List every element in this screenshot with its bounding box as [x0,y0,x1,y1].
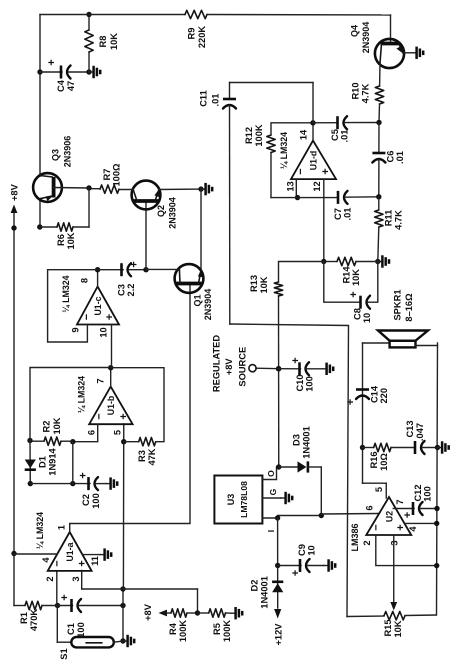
capacitor C7 [337,191,340,204]
svg-text:+8V: +8V [9,183,19,201]
svg-text:C9: C9 [297,544,307,556]
svg-text:10K: 10K [66,232,76,249]
transistor Q1 2N3904 [175,264,204,293]
svg-text:R12: R12 [244,127,254,144]
wire Q2 emitter down [159,188,201,190]
svg-text:Q1: Q1 [193,294,203,306]
wire pin O [262,467,278,480]
svg-text:12: 12 [312,181,322,191]
svg-text:+: + [46,59,58,65]
wire pin5 riser [363,482,387,484]
svg-text:1N4001: 1N4001 [260,576,270,609]
node pin4 tap [11,551,16,556]
wire U1-c feedback loop [48,270,98,342]
svg-text:+8V: +8V [224,358,234,376]
svg-text:+12V: +12V [274,623,284,646]
svg-text:10: 10 [362,313,372,323]
svg-text:+: + [290,357,302,363]
right rail + resistor R9 [40,14,185,16]
resistor R4 [171,609,187,617]
diode D1 [29,441,31,484]
ground R14 node [378,261,382,263]
node R14 bottom bus [375,259,380,264]
ground Q2/Q1 emitters [201,188,205,190]
svg-text:¼ LM324: ¼ LM324 [279,132,289,169]
transistor Q4 2N3904 [390,15,392,42]
node R1/C1/pin2 junction [55,603,60,608]
svg-text:470K: 470K [29,609,39,632]
wire pin11 + ground [82,554,100,556]
wire pin6 V+ riser [321,513,379,516]
svg-text:5: 5 [113,430,123,435]
wire pin4 to ground bus [405,522,437,524]
wire pin G + ground [262,497,281,499]
capacitor C3 [98,269,124,271]
wire U1-c output [97,270,99,287]
resistor R1 [14,605,25,607]
resistor R8 [88,52,90,72]
ground R5 bottom [231,612,235,614]
svg-text:10: 10 [307,545,317,555]
svg-text:R10: R10 [351,82,361,99]
capacitor C14 [356,388,369,391]
transistor Q2 2N3904 [132,181,161,210]
svg-text:SPKR1: SPKR1 [393,289,403,320]
svg-text:U1-d: U1-d [309,151,319,171]
svg-text:U2: U2 [385,511,395,522]
svg-text:R1: R1 [19,612,29,624]
wire pin4 V+ [14,553,57,555]
ground C4 node [89,71,93,73]
svg-text:−: − [371,524,383,530]
svg-text:100K: 100K [178,620,188,643]
wire U1-b output [110,368,112,387]
svg-text:.01: .01 [340,130,350,143]
wire regulated +8V rail y=278.75 [278,296,280,467]
svg-text:R13: R13 [249,275,259,292]
svg-text:Q3: Q3 [51,149,61,161]
svg-text:Q4: Q4 [350,25,360,37]
svg-text:R4: R4 [168,622,178,635]
svg-text:D2: D2 [250,580,260,592]
svg-text:6: 6 [365,505,375,510]
resistor R5 [198,612,209,614]
resistor R12 [270,153,272,198]
svg-text:C1: C1 [66,623,76,635]
wire U1-b feedback box [30,368,111,441]
svg-text:R8: R8 [98,36,108,48]
svg-text:4.7K: 4.7K [394,210,404,230]
wire Q1 collector to Q2 base [146,268,179,270]
wire Q3 base down [54,187,89,190]
wire ground bus y=123 [122,589,124,641]
svg-text:10K: 10K [393,620,403,637]
svg-text:+: + [104,314,116,320]
capacitor C6 [378,123,380,153]
resistor R3 [124,441,139,443]
wire C11 to R15 long link [230,324,349,617]
svg-text:C12: C12 [413,484,423,501]
resistor R16 [363,447,374,449]
capacitor C2 + ground [30,483,90,485]
capacitor C8 loop [324,262,361,303]
op-amp U1-d [291,141,336,180]
wire pin10 to U1-b output [111,325,113,368]
svg-text:2N3906: 2N3906 [63,136,73,168]
svg-text:+: + [59,594,71,600]
svg-text:R3: R3 [137,450,147,462]
svg-text:100: 100 [423,486,433,502]
svg-text:10K: 10K [351,269,361,286]
svg-text:1N914: 1N914 [48,447,58,475]
node pin3/divider [120,586,125,591]
svg-text:100Ω: 100Ω [112,163,122,187]
svg-text:7: 7 [96,378,106,383]
svg-text:2: 2 [45,576,55,581]
capacitor C9 + ground [278,565,301,567]
svg-text:+: + [402,512,414,518]
wire pin2 to U1-a [56,571,58,606]
ground speaker bus [438,447,442,449]
svg-text:3: 3 [71,576,81,581]
switch S1 (mercury) [56,606,58,643]
wire divider to pin3 riser [197,589,199,613]
wire U1-b pin5 branch [122,424,124,589]
wire D3 to +12V node [320,467,322,516]
svg-text:.01: .01 [211,94,221,107]
transistor Q3 2N3906 [33,173,62,202]
svg-text:+: + [129,261,141,267]
svg-text:10K: 10K [109,33,119,50]
svg-text:C4: C4 [56,79,66,92]
wire R12-C7 riser [271,197,338,199]
svg-text:U3: U3 [226,494,236,506]
svg-text:−: − [81,314,93,320]
svg-text:47K: 47K [147,448,157,465]
svg-text:+: + [77,560,89,566]
wire R15 wiper arrow from pin3 [393,535,395,602]
svg-text:C5: C5 [330,129,340,141]
svg-text:2N3904: 2N3904 [203,289,213,321]
wire emitter bus y=201 [200,189,202,270]
svg-text:C10: C10 [295,374,305,391]
wire pin2 to ground bus [376,535,437,566]
svg-text:14: 14 [299,129,309,140]
svg-text:4.7K: 4.7K [361,83,371,103]
svg-text:¼ LM324: ¼ LM324 [61,275,71,312]
ground S1 node [123,640,127,642]
capacitor C11 [229,83,231,99]
potentiometer R15 [347,615,384,618]
svg-text:4: 4 [408,526,418,532]
svg-text:C6: C6 [386,151,396,163]
svg-text:100K: 100K [254,124,264,147]
resistor R10 [379,63,381,86]
wire U1-a output [70,284,190,533]
node D3 anode [276,464,281,469]
svg-text:+: + [320,168,332,174]
svg-text:13: 13 [286,181,296,191]
resistor R7 [119,189,133,191]
svg-text:R14: R14 [342,266,352,284]
diode D3 [279,466,298,468]
svg-text:C7: C7 [333,208,343,220]
svg-text:100: 100 [91,493,101,509]
capacitor C5 [313,122,338,124]
op-amp U1-c [77,287,119,325]
svg-text:SOURCE: SOURCE [238,347,248,387]
wire y=313 to C11 riser [312,83,314,123]
+8V arrow right end [13,212,15,228]
node Q3 emitter branch [11,225,16,230]
op-amp U2 LM386 [366,497,411,535]
svg-text:D1: D1 [38,456,48,468]
svg-text:−: − [295,168,307,174]
svg-text:LM78L08: LM78L08 [239,481,249,518]
capacitor C1 [58,605,73,607]
diode D2 [272,583,283,592]
svg-text:100: 100 [76,622,86,638]
wire pin3 riser [82,588,198,590]
svg-text:5: 5 [374,487,384,492]
resistor R13 [274,282,282,296]
svg-text:1N4001: 1N4001 [302,426,312,459]
svg-text:10Ω: 10Ω [379,453,389,471]
svg-text:Q2: Q2 [156,205,166,217]
svg-text:LM386: LM386 [350,523,360,551]
svg-text:9: 9 [71,327,81,332]
svg-text:R15: R15 [383,619,393,636]
svg-text:220: 220 [379,388,389,404]
svg-text:10K: 10K [259,276,269,293]
svg-text:O: O [266,470,276,477]
svg-text:U1-a: U1-a [65,542,75,561]
svg-text:100K: 100K [222,620,232,643]
node Q2 base [143,267,148,272]
resistor R2 [61,440,73,442]
svg-text:G: G [268,488,278,495]
speaker SPKR1 [363,342,390,344]
wire U1-d output pin14 [312,123,314,141]
svg-text:¼ LM324: ¼ LM324 [35,512,45,549]
svg-text:U1-c: U1-c [93,296,103,315]
capacitor C12 [393,508,414,510]
terminal circle REGULATED +8V SOURCE [256,367,279,370]
svg-text:2N3904: 2N3904 [168,197,178,229]
resistor R6 [40,226,57,228]
svg-text:2: 2 [362,540,372,545]
node pin5/R3 [121,439,126,444]
svg-text:+: + [348,291,360,297]
IC U3 LM78L08 box [214,476,262,524]
wire pin12 [323,179,325,261]
capacitor C4 [37,69,42,74]
svg-text:6: 6 [87,430,97,435]
svg-text:S1: S1 [59,648,69,659]
svg-text:+8V: +8V [143,603,153,621]
svg-text:D3: D3 [292,434,302,446]
wire C14 bus y=362.5 [362,343,364,483]
+12V arrow [274,609,281,619]
wire pin13 [295,179,297,198]
capacitor C13 [414,441,417,454]
svg-text:¼ LM324: ¼ LM324 [77,376,87,413]
node terminal tap [276,366,281,371]
wire Q2 base [145,203,147,270]
svg-text:R9: R9 [187,28,197,40]
svg-text:R7: R7 [102,169,112,181]
resistor R11 [375,210,383,227]
svg-text:C2: C2 [81,494,91,506]
wire Q4 emitter ground [403,52,412,54]
+8V arrow left divider [159,610,168,617]
wire pin I [262,517,277,519]
svg-text:REGULATED: REGULATED [212,335,222,392]
capacitor C10 + ground [276,366,281,371]
svg-text:C13: C13 [405,420,415,437]
svg-text:+: + [118,413,130,419]
svg-text:R2: R2 [42,421,52,433]
svg-text:220K: 220K [197,26,207,49]
op-amp U1-b [89,387,132,425]
svg-text:+: + [290,570,302,576]
svg-text:8: 8 [80,278,90,283]
svg-text:C14: C14 [370,385,380,403]
wire ground bus y=437.5 [437,343,438,614]
node S1 bottom / ground [120,638,125,643]
svg-text:R16: R16 [369,451,379,468]
svg-text:R11: R11 [384,210,394,227]
svg-text:+: + [78,472,90,478]
svg-text:C11: C11 [199,90,209,107]
svg-text:2.2: 2.2 [126,284,136,297]
svg-text:2N3904: 2N3904 [361,22,371,54]
svg-text:+: + [395,524,407,530]
node C9 tap [275,563,280,568]
svg-text:−: − [94,413,106,419]
svg-text:R6: R6 [56,234,66,246]
wire base bus y=89 left [88,188,90,227]
svg-text:11: 11 [90,556,100,566]
resistor R14 [324,261,337,263]
op-amp U1-a [48,532,92,571]
svg-text:10: 10 [99,327,109,337]
svg-text:1: 1 [57,525,67,530]
svg-text:10K: 10K [52,417,62,434]
wire +12V line [277,518,279,608]
svg-text:C3: C3 [117,284,127,296]
svg-text:4: 4 [41,557,51,563]
svg-text:.01: .01 [343,208,353,221]
wire y=40 collector rail [39,199,41,227]
wire pin6 lead [73,424,98,442]
svg-text:+: + [345,399,357,405]
svg-text:U1-b: U1-b [106,395,116,415]
svg-text:R5: R5 [212,623,222,635]
svg-text:47: 47 [66,81,76,91]
wire +8V top rail [13,228,15,606]
svg-text:.047: .047 [415,423,425,441]
svg-text:8–16Ω: 8–16Ω [404,293,414,322]
svg-text:I: I [266,530,276,532]
svg-text:3: 3 [390,540,400,545]
node C1 bottom [120,603,125,608]
svg-text:C8: C8 [353,308,363,320]
svg-text:7: 7 [395,499,405,504]
svg-text:−: − [52,560,64,566]
svg-text:100: 100 [305,376,315,392]
svg-text:.01: .01 [395,151,405,164]
